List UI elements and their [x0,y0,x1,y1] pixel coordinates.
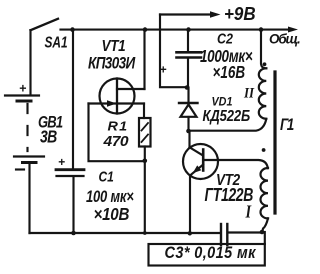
svg-text:+: + [58,155,65,169]
svg-text:КД522Б: КД522Б [203,108,251,125]
svg-text:SA1: SA1 [45,33,68,51]
svg-text:×10В: ×10В [94,205,130,224]
svg-text:КП303И: КП303И [88,54,136,73]
svg-text:+9В: +9В [224,3,256,24]
svg-text:I: I [245,201,252,222]
svg-text:C2: C2 [217,30,233,46]
svg-text:+: + [19,82,27,96]
svg-text:×16В: ×16В [213,63,246,82]
svg-text:100 мк×: 100 мк× [86,189,134,207]
svg-text:C3* 0,015 мк: C3* 0,015 мк [165,244,257,262]
svg-text:II: II [243,86,255,102]
svg-text:R1: R1 [108,119,129,133]
svg-text:+: + [160,63,167,77]
svg-text:470: 470 [102,133,129,150]
svg-text:Г1: Г1 [280,117,294,134]
svg-text:VD1: VD1 [212,96,233,109]
svg-text:C1: C1 [99,168,114,184]
svg-text:VT1: VT1 [102,38,126,55]
svg-text:3В: 3В [40,128,57,147]
svg-text:Общ.: Общ. [269,31,300,46]
